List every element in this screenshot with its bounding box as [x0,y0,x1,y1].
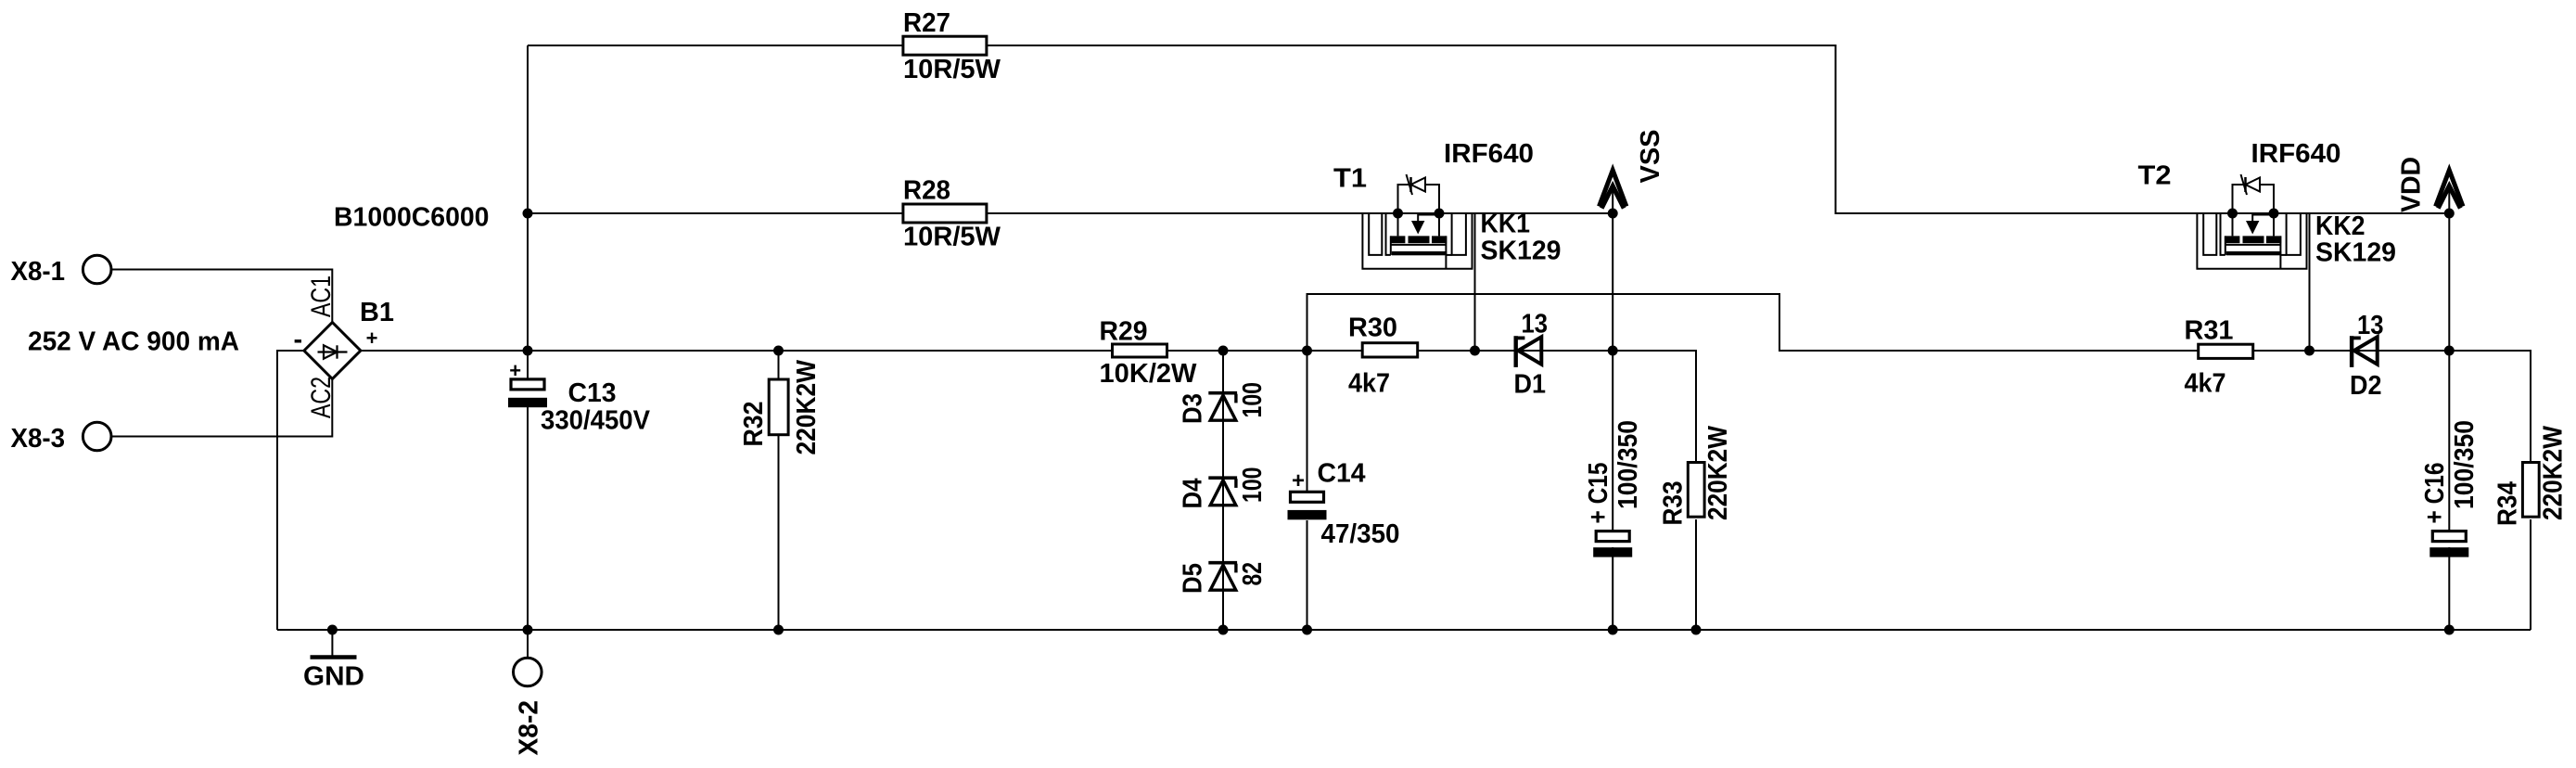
svg-text:R29: R29 [1100,317,1148,347]
svg-text:-: - [294,326,303,355]
svg-text:+ C16: + C16 [2420,463,2450,524]
svg-text:+: + [509,359,521,382]
svg-text:VDD: VDD [2397,157,2427,212]
svg-text:330/450V: 330/450V [541,406,651,436]
svg-text:82: 82 [1238,562,1268,586]
svg-text:D3: D3 [1179,393,1208,424]
svg-text:T2: T2 [2138,161,2172,191]
svg-text:252 V AC 900 mA: 252 V AC 900 mA [28,327,239,357]
svg-text:+: + [1292,468,1305,493]
svg-text:D2: D2 [2350,371,2382,401]
svg-text:IRF640: IRF640 [1444,139,1534,169]
svg-text:X8-1: X8-1 [11,257,66,287]
svg-text:VSS: VSS [1636,130,1665,184]
svg-text:KK2: KK2 [2315,211,2366,241]
svg-text:4k7: 4k7 [1348,369,1390,399]
svg-text:X8-2: X8-2 [515,700,544,756]
svg-text:R28: R28 [903,176,950,206]
svg-text:IRF640: IRF640 [2251,139,2341,169]
svg-text:13: 13 [2357,311,2384,340]
svg-text:220K2W: 220K2W [792,359,822,454]
svg-text:R32: R32 [739,402,769,447]
svg-text:220K2W: 220K2W [2539,425,2569,520]
svg-text:10R/5W: 10R/5W [903,223,1001,252]
svg-text:+ C15: + C15 [1584,463,1613,524]
svg-text:10K/2W: 10K/2W [1100,359,1198,389]
svg-text:B1: B1 [360,298,394,327]
svg-text:13: 13 [1522,310,1549,339]
svg-text:X8-3: X8-3 [11,424,66,454]
svg-text:C14: C14 [1318,459,1366,489]
svg-text:AC1: AC1 [306,275,337,317]
svg-text:R34: R34 [2493,481,2523,526]
svg-text:10R/5W: 10R/5W [903,55,1001,84]
svg-text:R33: R33 [1659,481,1689,526]
svg-text:4k7: 4k7 [2185,369,2226,399]
svg-text:+: + [366,326,378,350]
svg-text:R30: R30 [1348,314,1397,343]
svg-text:100/350: 100/350 [2450,420,2480,509]
svg-text:47/350: 47/350 [1321,519,1400,549]
svg-text:KK1: KK1 [1481,210,1531,239]
svg-text:AC2: AC2 [306,377,337,418]
svg-text:220K2W: 220K2W [1703,425,1733,520]
svg-text:R31: R31 [2185,316,2234,346]
svg-text:T1: T1 [1333,164,1367,194]
svg-text:GND: GND [303,662,364,692]
svg-text:B1000C6000: B1000C6000 [334,203,490,233]
svg-text:SK129: SK129 [2315,238,2396,268]
svg-text:100/350: 100/350 [1613,420,1643,509]
svg-text:D5: D5 [1179,563,1208,594]
svg-text:D1: D1 [1514,370,1547,400]
svg-text:SK129: SK129 [1481,237,1562,266]
svg-text:100: 100 [1238,382,1268,418]
svg-text:R27: R27 [903,8,950,38]
svg-text:D4: D4 [1179,479,1208,509]
svg-text:C13: C13 [568,378,617,408]
svg-text:100: 100 [1238,467,1268,504]
